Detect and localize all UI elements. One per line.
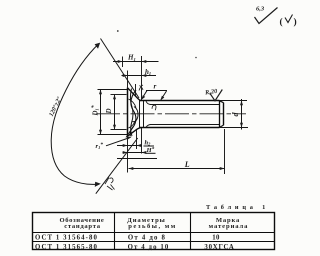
svg-text:6,3: 6,3 bbox=[256, 6, 265, 13]
table row 1 bbox=[35, 235, 220, 242]
svg-text:30ХГСА: 30ХГСА bbox=[204, 244, 234, 251]
screw shank bottom edge bbox=[139, 127, 220, 129]
fillet r leader bbox=[141, 91, 147, 101]
fillet r label bbox=[154, 83, 157, 91]
H1 extension tick bbox=[122, 57, 124, 68]
d dimension line bbox=[240, 99, 243, 130]
head cone lower edge bbox=[128, 128, 142, 137]
centerline (screw axis) bbox=[96, 113, 246, 115]
svg-text:От 4 до 8: От 4 до 8 bbox=[128, 235, 166, 242]
small mark at lower extension end bbox=[105, 178, 115, 191]
under-head dimension h2 line bbox=[117, 144, 142, 147]
svg-text:ОСТ 1 31564-80: ОСТ 1 31564-80 bbox=[35, 235, 98, 242]
cone lower extension line bbox=[96, 138, 138, 194]
table caption bbox=[206, 204, 269, 211]
roughness check mark bbox=[255, 8, 278, 24]
table row 2 bbox=[35, 244, 235, 251]
dimension h line bbox=[122, 74, 157, 77]
angle value 120±2 bbox=[48, 95, 63, 117]
cone upper extension line bbox=[101, 39, 140, 99]
arc bottom arrowhead bbox=[95, 182, 101, 187]
r1 leader bbox=[106, 137, 132, 146]
h2 label bbox=[144, 139, 155, 146]
fillet r leader shelf bbox=[146, 90, 167, 92]
small alpha mark near cone bbox=[139, 85, 143, 91]
svg-text:Таблица 1: Таблица 1 bbox=[206, 204, 269, 211]
svg-text:стандарта: стандарта bbox=[64, 223, 100, 230]
d dimension extension bottom bbox=[219, 127, 248, 129]
svg-text:резьбы, мм: резьбы, мм bbox=[128, 223, 176, 230]
svg-text:От 4 до 10: От 4 до 10 bbox=[128, 244, 170, 251]
roughness 6,3 value bbox=[256, 6, 265, 13]
r1 label bbox=[96, 141, 104, 150]
junction extension below head bbox=[141, 128, 143, 154]
dimension D extension bottom bbox=[111, 129, 127, 131]
auxiliary line under head bbox=[117, 158, 157, 160]
dimension h label bbox=[145, 68, 151, 76]
table header col2 bbox=[127, 217, 176, 230]
svg-text:D: D bbox=[105, 108, 113, 114]
table header col3 bbox=[209, 217, 249, 230]
head cone upper edge bbox=[128, 88, 142, 101]
arc top arrowhead bbox=[95, 43, 101, 49]
dimension H1 label bbox=[127, 54, 136, 62]
dimension H1 line bbox=[113, 60, 159, 63]
cross recess profile in head bbox=[126, 89, 138, 138]
shank end chamfer line bbox=[219, 101, 221, 128]
svg-text:материала: материала bbox=[209, 223, 249, 230]
face extension below head bbox=[127, 137, 129, 173]
dimension D1 line bbox=[99, 90, 102, 135]
svg-text:): ) bbox=[294, 16, 297, 27]
angle dimension arc bbox=[51, 44, 99, 185]
dimension D label bbox=[105, 108, 113, 114]
L dimension line bbox=[129, 167, 225, 170]
thread minor diameter bottom line bbox=[150, 124, 220, 126]
svg-text:r: r bbox=[154, 83, 157, 91]
H* label bbox=[146, 145, 156, 154]
scan speck bbox=[117, 30, 119, 32]
svg-text:ОСТ 1 31565-80: ОСТ 1 31565-80 bbox=[35, 244, 98, 251]
thread runout mark on axis bbox=[146, 101, 156, 127]
(v) other-surfaces mark bbox=[280, 15, 297, 28]
table header col1 bbox=[60, 217, 105, 230]
r leader second arrow bbox=[160, 91, 166, 101]
d dimension extension top bbox=[219, 100, 247, 102]
under-head dimension H line bbox=[123, 151, 147, 154]
dimension D1 extension bottom bbox=[98, 134, 128, 136]
dimension D1 label bbox=[91, 105, 100, 116]
thread minor diameter top line bbox=[150, 104, 220, 106]
dimension D extension top bbox=[111, 94, 127, 96]
shank end face bbox=[220, 101, 224, 128]
d label bbox=[231, 112, 240, 117]
head-shank junction line bbox=[139, 101, 141, 127]
recess edge extension above cone bbox=[135, 84, 137, 96]
dimension D line bbox=[113, 95, 116, 130]
roughness Rz20 on shank bbox=[204, 88, 223, 101]
junction extension above head bbox=[141, 56, 143, 100]
thread runout boundary bbox=[143, 101, 145, 127]
screw shank top edge bbox=[139, 100, 220, 102]
scan speck 2 bbox=[195, 57, 197, 59]
face extension above head bbox=[127, 71, 129, 88]
svg-text:10: 10 bbox=[212, 235, 220, 242]
svg-text:L: L bbox=[184, 160, 190, 169]
head face bbox=[127, 88, 129, 137]
dimension D1 extension top bbox=[98, 89, 128, 91]
L label bbox=[184, 160, 190, 169]
fillet extension below head bbox=[136, 130, 138, 149]
L dimension extension right bbox=[224, 129, 226, 174]
table frame bbox=[33, 213, 275, 250]
svg-text:(: ( bbox=[280, 16, 283, 27]
